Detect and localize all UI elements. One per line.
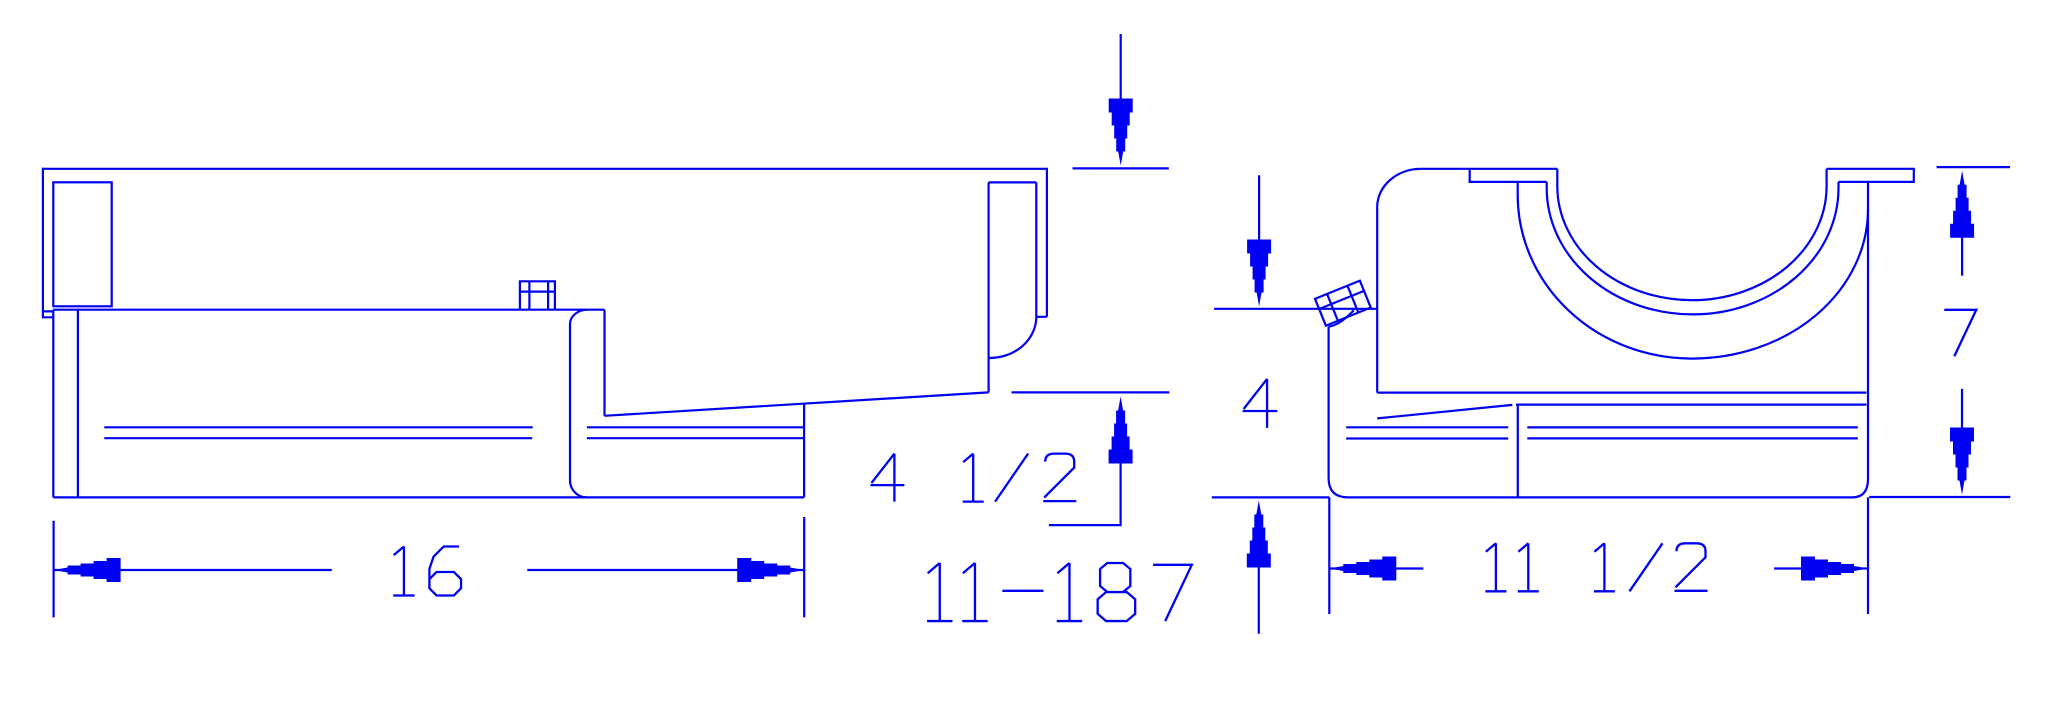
- dim text 4 1/2: [870, 454, 1076, 502]
- side view: drain plug: [520, 281, 555, 309]
- side view: left wall inner+outer verticals: [53, 310, 78, 498]
- side view: front wall boss rectangle: [53, 182, 111, 306]
- dim 11 1/2: dimension line and arrows: [1329, 567, 1868, 569]
- end view: windage tray right segment: [1527, 427, 1858, 438]
- dim 7: top reference line: [1937, 166, 2010, 168]
- dim 7: bottom arrow: [1950, 428, 1974, 495]
- end view: tilted fill plug: [1315, 281, 1371, 326]
- dim text 11 1/2: [1485, 543, 1707, 591]
- end view: rail line at left: [1214, 308, 1377, 310]
- end view: crank bore middle arc: [1547, 182, 1839, 315]
- dim 16: arrows: [54, 558, 805, 582]
- dim 16: extension lines: [54, 517, 805, 617]
- part number 11-187: [927, 563, 1192, 621]
- dim 4: bottom arrow: [1247, 501, 1271, 568]
- end view: left rail tab: [1470, 169, 1547, 182]
- end view: top edge: [1421, 168, 1557, 170]
- end view: floor lower line: [1516, 404, 1866, 406]
- dim text 7: [1944, 310, 1976, 357]
- end view: sloped floor at left: [1377, 405, 1512, 419]
- end view: crank bore outer arc: [1518, 182, 1868, 359]
- side view: sloped shallow bottom: [605, 392, 989, 415]
- end view: right rail tab: [1827, 169, 1914, 182]
- end view: left outer wall, bottom edge, right wall: [1329, 182, 1868, 498]
- side view: pan rail flange line: [53, 309, 604, 311]
- side view: sump rear inner wall with fillets: [570, 310, 588, 498]
- end view: floor upper line: [1377, 392, 1866, 394]
- side view: pan top edge: [43, 168, 1047, 170]
- side view: sump rear wall vertical: [803, 404, 805, 498]
- end view: crank bore inner arc: [1557, 169, 1826, 300]
- dim 4 1/2: bottom arrow with leader: [1109, 397, 1133, 464]
- dim 4 1/2: top reference line: [1073, 167, 1169, 169]
- end view: sump wall edge vertical: [1517, 405, 1519, 498]
- dim 11 1/2: extension lines: [1329, 497, 1868, 614]
- side view: sump bottom edge: [53, 496, 804, 498]
- end view: windage tray left segment: [1346, 427, 1508, 438]
- end view: plug boss fillet curve: [1329, 310, 1354, 326]
- dim text 4: [1243, 379, 1278, 428]
- side view: timing-end pocket: [989, 168, 1047, 393]
- dim 16: dimension line: [54, 569, 805, 571]
- side view: windage tray lines left segment: [104, 427, 532, 438]
- dim 7: top arrow: [1950, 171, 1974, 238]
- dim 4 1/2: top arrow: [1109, 99, 1133, 166]
- dim 4 1/2: bottom reference line: [1012, 391, 1170, 393]
- end view: top-left rounded corner: [1377, 169, 1421, 207]
- side view: left outer wall: [43, 168, 53, 317]
- dim 7: bottom reference line: [1869, 496, 2010, 498]
- side view: sump rear outer step wall: [603, 310, 605, 416]
- dim 4: bottom reference line: [1212, 496, 1330, 498]
- dim text 16: [393, 547, 461, 596]
- side view: windage tray lines right segment: [587, 427, 804, 438]
- dim 4: top arrow: [1247, 240, 1271, 307]
- end view: left inner wall: [1376, 207, 1378, 393]
